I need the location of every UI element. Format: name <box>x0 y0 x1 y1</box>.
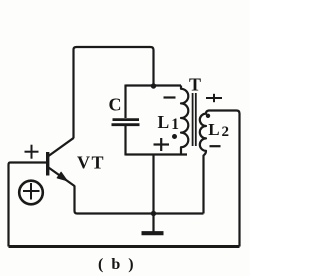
node: collector/tank junction dot <box>151 83 156 88</box>
wire: L2 top to right rail and down to bottom rail <box>209 111 240 247</box>
wire: tank bottom rail <box>126 153 188 155</box>
node: emitter/tank/ground junction <box>151 211 156 216</box>
svg-text:L1: L1 <box>158 112 179 133</box>
wire: emitter down and along to L2 return <box>75 186 204 214</box>
wire: base lead from left rail <box>9 163 47 247</box>
polarity − at L1 top <box>164 96 176 98</box>
polarity + at L2 top <box>206 94 222 102</box>
wire: bottom rail <box>9 245 240 248</box>
winding dot L1 <box>172 134 177 139</box>
polarity + at base <box>25 145 39 159</box>
polarity + at L1 bottom <box>154 138 170 151</box>
wire: collector riser, top rail and drop to tank top <box>74 47 154 138</box>
capacitor C <box>112 85 140 156</box>
svg-text:VT: VT <box>77 153 105 173</box>
ground <box>142 214 164 234</box>
svg-text:L2: L2 <box>208 120 229 140</box>
source circle with plus <box>19 181 43 205</box>
svg-text:(b): (b) <box>98 256 142 273</box>
transformer core T <box>193 93 196 146</box>
wire: tank top rail <box>126 84 182 86</box>
transistor VT <box>48 138 75 186</box>
svg-text:C: C <box>109 95 122 115</box>
inductor L1 <box>181 86 188 155</box>
winding dot L2 <box>206 114 210 118</box>
inductor L2 <box>200 111 209 214</box>
wire: tank bottom to junction <box>152 155 154 214</box>
svg-text:T: T <box>189 75 201 95</box>
polarity − at L2 <box>210 145 221 147</box>
